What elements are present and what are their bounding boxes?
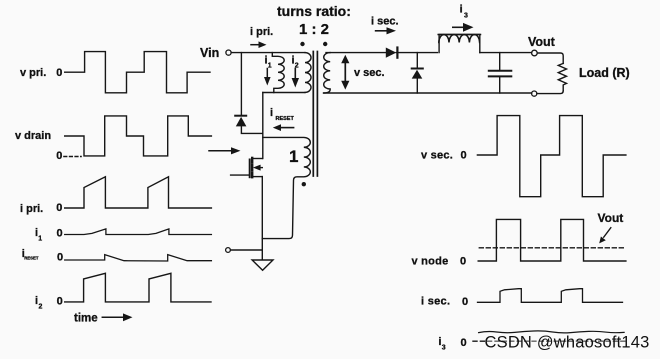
svg-text:CSDN @whaosoft143: CSDN @whaosoft143 [485,334,650,352]
svg-text:Load (R): Load (R) [579,66,630,80]
wire secondary top rail [326,52,386,54]
svg-text:i pri.: i pri. [20,203,43,215]
phase dot primary [300,42,304,46]
winding secondary [324,53,331,93]
wire inductor to output [480,52,532,54]
waveform i1 trace [65,229,212,235]
svg-text:1: 1 [289,147,298,166]
svg-text:Vout: Vout [598,211,624,225]
svg-text:v drain: v drain [15,130,51,142]
svg-text:1: 1 [268,63,272,70]
waveform v drain trace [65,116,212,156]
wire load bottom [537,91,563,94]
arrow i1 down [266,69,268,79]
time axis arrow [102,316,124,318]
wire bottom rail secondary [324,92,532,94]
svg-text:i: i [460,4,463,16]
capacitor C1 [499,53,501,70]
svg-text:3: 3 [464,13,468,20]
svg-text:time: time [74,313,98,325]
wire drain vertical [262,93,264,159]
svg-text:0: 0 [56,67,62,79]
svg-text:v pri.: v pri. [20,67,46,79]
arrow i sec [376,30,388,32]
waveform i3 trace (ripple) [479,331,624,333]
svg-text:3: 3 [442,345,446,352]
svg-text:RESET: RESET [276,116,295,122]
transistor Q1 (N-MOSFET) [231,174,250,176]
waveform v sec trace [477,116,626,197]
waveform i3 dashed zero [473,340,487,342]
svg-text:0: 0 [57,228,63,240]
waveform v pri trace [65,52,210,93]
winding P2 (i2) [305,53,311,93]
arrow Vout pointer [604,228,611,238]
svg-text:1 : 2: 1 : 2 [299,21,329,38]
svg-text:turns ratio:: turns ratio: [277,3,351,19]
winding P1 (i1) [272,53,284,93]
svg-text:0: 0 [56,150,62,162]
svg-text:0: 0 [56,202,62,214]
wire branch down to reset diode [240,53,242,115]
svg-text:Vin: Vin [200,46,219,60]
svg-text:i sec.: i sec. [421,296,450,308]
svg-text:v node: v node [412,256,449,268]
wire bottom-left rail [231,249,263,251]
arrow i3 [453,26,464,28]
svg-text:i: i [270,107,273,119]
waveform i pri trace [65,177,212,208]
wire source down [261,177,263,259]
wire winding bottom bus [263,92,305,94]
ground [252,260,273,270]
svg-text:v sec.: v sec. [354,67,385,79]
node terminal bottom [532,91,537,96]
svg-text:0: 0 [461,150,467,162]
wire Vin to transformer top [231,52,305,54]
node Vin terminal [226,50,231,55]
waveform v drain zero dots [64,156,81,158]
resistor Load [558,63,566,90]
winding reset (1) [262,137,310,238]
arrow iRESET left [280,127,294,129]
phase dot winding 1 [302,182,306,186]
phase dot secondary [323,42,327,46]
waveform i2 trace [65,273,211,302]
transistor Q1 drive arrow [209,150,232,152]
node Vout terminal top [532,50,538,56]
wire diode to inductor [396,52,437,54]
transformer core [312,52,314,177]
svg-text:0: 0 [461,337,467,349]
wire to load top [537,53,563,63]
inductor L1 [439,35,480,53]
svg-text:RESET: RESET [24,256,39,261]
arrow v sec double [344,60,346,84]
arrow i2 down [294,69,296,80]
waveform i sec trace [478,289,623,303]
svg-text:0: 0 [460,256,466,268]
svg-text:0: 0 [462,296,468,308]
diode D reset (anode bottom, cathode top) [235,115,246,117]
svg-text:i pri.: i pri. [250,26,273,38]
wire diode to drain node [241,126,262,133]
arrow i pri [251,44,260,46]
svg-text:i sec.: i sec. [371,16,399,28]
Vout dashed level [479,247,626,249]
svg-text:1: 1 [38,236,42,243]
diode D series [386,48,397,58]
node Vin- terminal [226,248,231,253]
svg-text:v sec.: v sec. [421,150,453,162]
svg-text:2: 2 [39,304,43,311]
svg-text:Vout: Vout [528,35,556,49]
svg-text:0: 0 [57,252,63,264]
svg-text:0: 0 [57,296,63,308]
waveform iRESET trace [65,255,212,261]
diode D freewheel branch [416,53,418,68]
waveform v node trace [478,219,626,261]
